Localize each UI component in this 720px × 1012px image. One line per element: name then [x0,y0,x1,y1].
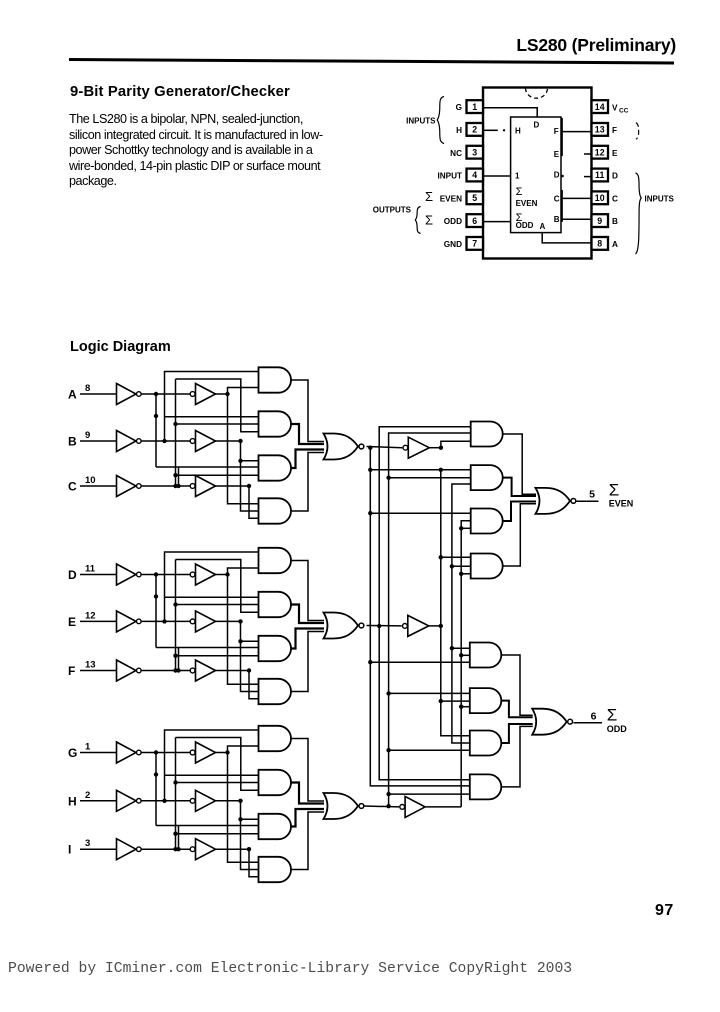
wire buffer GHI out [425,806,461,808]
svg-text:2: 2 [472,125,477,135]
svg-text:NC: NC [450,149,462,158]
svg-text:ODD: ODD [444,217,462,226]
wire to EVEN AND2 input1 [370,469,470,471]
AND gate EVEN2 [471,465,503,490]
AND gate EVEN1 [471,422,503,447]
wire AND1 out to NOR (DEF) [291,561,324,621]
svg-text:C: C [68,480,77,494]
svg-text:Σ: Σ [516,186,523,198]
svg-text:EVEN: EVEN [516,199,538,208]
pin label H [456,126,462,135]
vertical distribution wire (DEF) [165,560,259,672]
svg-text:H: H [68,794,77,808]
svg-text:9: 9 [85,430,90,441]
svg-text:8: 8 [85,383,90,394]
pin label GND [444,240,462,249]
svg-text:INPUTS: INPUTS [406,117,436,126]
wire AND1 out to NOR (ABC) [291,380,324,442]
wire to AND3 input (ABC) [156,467,259,488]
wire AND3 out to NOR (ABC) [291,450,324,469]
svg-text:F: F [554,127,559,136]
wire pin4 INPUT to inner box [484,175,511,177]
wire pin1 G to inner box [484,108,537,117]
svg-text:A: A [68,388,77,402]
vertical net V1 (parity ABC) [368,448,470,786]
AND gate DEF4 [259,679,292,704]
pin 7 [467,237,484,250]
AND gate GHI3 [259,814,292,839]
wire AND3 out to NOR (GHI) [291,809,324,827]
wire EVEN AND4 out to NOR [503,504,536,566]
wire A double-inverted to AND1/AND4 (ABC) [216,388,259,504]
inverter D first stage [117,564,142,585]
wire AND4 out to NOR (ABC) [291,453,324,512]
wire H double-inverted to AND4 (GHI) [216,799,259,870]
svg-text:7: 7 [472,239,477,249]
wire to ODD AND3 input3 [389,749,469,751]
inverter A second stage [190,384,215,405]
AND gate ABC4 [259,498,292,523]
NOR gate ODD output [532,709,572,735]
output 5 sigma EVEN [576,481,634,509]
output 6 sigma ODD [574,706,628,735]
inverter E first stage [117,611,142,632]
svg-text:B: B [554,215,560,224]
wire AND4 out to NOR (GHI) [291,812,324,870]
wire AND2 out to NOR (GHI) [291,783,324,804]
svg-text:Σ: Σ [609,481,620,500]
AND gate EVEN4 [471,554,503,579]
pin 14 [592,100,609,113]
wire buffer ABC out [429,441,470,450]
input F (pin 13) [68,660,116,679]
wire ODD AND2 out to NOR [501,701,532,718]
INPUTS label (left, pins G,H) [406,97,444,144]
svg-text:9: 9 [597,216,602,226]
svg-text:6: 6 [591,711,597,723]
pin label sigma EVEN [425,189,462,204]
wire to AND1 input (GHI) [165,730,259,801]
pin label D [612,172,618,181]
svg-text:D: D [554,171,560,180]
wire EVEN AND2 out to NOR [503,478,536,496]
wire AND2 out to NOR (DEF) [291,605,324,624]
wire H inverted node [142,799,191,803]
pin label F [612,126,617,135]
INPUTS label (right, pins 8-11,13) [636,123,675,254]
wire ODD AND4 out to NOR [501,726,532,787]
wire ODD AND1 out to NOR [501,655,532,715]
svg-text:EVEN: EVEN [609,499,634,509]
svg-text:C: C [612,194,618,203]
node parity GHI [365,804,400,808]
svg-text:1: 1 [85,742,91,753]
svg-text:5: 5 [589,489,595,501]
svg-text:ODD: ODD [516,221,534,230]
inverter F first stage [117,660,142,681]
wire to ODD AND2 input1 [389,692,471,694]
wire to ODD AND1 input2 [461,654,470,656]
vertical net V4 (parity DEF inverted) [439,468,469,736]
wire B double-inverted to AND4 (ABC) [216,439,259,511]
svg-text:Σ: Σ [607,706,618,725]
inverter A first stage [117,384,142,405]
inverter I first stage [117,839,142,860]
wire I double-inverted to AND4 (GHI) [216,847,259,877]
svg-text:E: E [68,615,76,629]
vertical net V2 (parity DEF) [379,427,471,780]
wire pin8 A to inner box [542,233,591,243]
svg-text:Σ: Σ [425,213,433,228]
svg-text:1: 1 [515,171,520,180]
buffer/inverter ABC' [403,437,429,458]
pin 8 [592,237,609,250]
pin 10 [592,191,609,204]
pin 11 [592,169,609,182]
inverter H first stage [117,790,142,811]
wire AND4 out to NOR (DEF) [291,632,324,692]
wire EVEN AND1 out to NOR [503,434,536,494]
input D (pin 11) [68,564,116,583]
svg-text:B: B [68,435,77,449]
DIP package U1 body [483,88,592,259]
wire to ODD AND2 input2 [441,700,471,702]
wire B inverted node [142,439,191,443]
vertical net V6 (parity GHI inverted) [459,521,471,807]
inverter F second stage [190,660,215,681]
AND gate ODD1 [470,643,501,668]
input B (pin 9) [68,430,116,449]
svg-text:CC: CC [619,108,629,115]
vertical distribution wire (GHI) [165,738,259,851]
svg-text:EVEN: EVEN [440,194,462,203]
wire D double-inverted to AND1/AND4 (DEF) [216,568,259,684]
inverter B second stage [190,431,215,452]
vertical net V3 (parity GHI) [386,433,470,806]
svg-text:INPUTS: INPUTS [645,195,675,204]
wire to ODD AND1 input3 [370,661,470,663]
wire buffer DEF out [429,624,443,628]
input H (pin 2) [68,790,116,809]
wire to EVEN AND2 input2 [389,477,471,479]
pin 2 [467,123,484,136]
svg-text:2: 2 [85,790,90,801]
AND gate EVEN3 [471,509,503,534]
inverter I second stage [190,839,215,860]
wire D inverted node [142,572,191,647]
svg-text:E: E [554,150,560,159]
wire to AND3 input (DEF) [156,648,259,673]
svg-text:F: F [612,126,617,135]
AND gate DEF3 [259,636,292,661]
svg-text:OUTPUTS: OUTPUTS [373,206,412,215]
svg-text:6: 6 [472,216,477,226]
wire E inverted node [142,619,191,623]
inverter C first stage [117,476,142,497]
pin label A [612,240,618,249]
pin 12 [592,146,609,159]
AND gate ODD3 [470,731,501,756]
svg-text:INPUT: INPUT [437,172,462,181]
svg-text:H: H [515,127,521,136]
wire to EVEN AND4 input2 [452,565,471,567]
inverter G first stage [117,742,142,763]
wire I inverted node [142,847,191,851]
vertical distribution wire (ABC) [165,379,259,487]
vertical net V5 [450,484,471,743]
svg-text:G: G [68,746,77,760]
wire to ODD AND2 input3 [461,706,471,708]
wire AND3 out to NOR (DEF) [291,629,324,649]
svg-text:3: 3 [472,147,477,157]
svg-text:1: 1 [472,102,477,112]
svg-text:Σ: Σ [425,189,433,204]
svg-text:D: D [534,121,540,130]
svg-text:12: 12 [595,147,605,157]
pin label G [456,103,462,112]
wire to ODD AND4 input3 [389,793,469,795]
pin 4 [467,169,484,182]
input E (pin 12) [68,610,116,629]
OUTPUTS label (left, pins 5,6) [373,206,421,234]
AND gate ODD2 [470,688,501,713]
svg-text:11: 11 [595,170,604,180]
wire pin2 H (broken in scan) [484,129,505,131]
wire pin11 D stub [561,175,591,178]
input I (pin 3) [68,838,116,857]
svg-text:B: B [612,217,618,226]
inverter E second stage [190,611,215,632]
svg-text:I: I [68,843,71,857]
svg-text:11: 11 [85,564,96,575]
AND gate ABC2 [259,411,292,436]
svg-text:V: V [612,104,618,113]
svg-text:5: 5 [472,193,477,203]
buffer/inverter DEF' [403,615,429,636]
input C (pin 10) [68,475,116,494]
pin 1 [467,100,484,113]
svg-text:A: A [612,240,618,249]
svg-text:ODD: ODD [607,724,628,734]
svg-text:GND: GND [444,240,462,249]
pin label E [612,149,618,158]
inverter H second stage [190,790,215,811]
AND gate ABC3 [259,455,292,480]
pin label B [612,217,618,226]
svg-text:8: 8 [597,239,602,249]
svg-text:D: D [68,568,77,582]
wire C double-inverted to AND4 (ABC) [216,484,259,518]
wire to EVEN AND4 input1 [441,556,471,558]
svg-text:14: 14 [595,102,605,112]
AND gate DEF2 [259,592,292,617]
pin label sigma ODD [425,213,462,228]
input A (pin 8) [68,383,116,402]
pin label INPUT [437,172,462,181]
AND gate GHI2 [259,770,292,795]
pin 9 [592,214,609,227]
svg-text:C: C [554,194,560,203]
wire ODD AND3 out to NOR [501,724,532,743]
wire G double-inverted to AND1/AND4 (GHI) [216,746,259,862]
wire pin9 B [562,218,591,220]
wire AND1 out to NOR (GHI) [291,739,324,802]
input G (pin 1) [68,742,116,761]
svg-text:4: 4 [472,170,477,180]
inverter C second stage [190,476,215,497]
svg-text:D: D [612,172,618,181]
AND gate GHI4 [259,857,292,882]
wire A inverted node [142,392,191,467]
wire AND2 out to NOR (ABC) [291,424,324,444]
pin 13 [592,123,609,136]
pin label C [612,194,618,203]
svg-text:3: 3 [85,838,90,849]
wire E double-inverted to AND4 (DEF) [216,619,259,691]
U1 inner function box [511,117,561,233]
NOR gate EVEN output [536,488,576,514]
AND gate DEF1 [259,548,292,573]
AND gate GHI1 [259,726,292,751]
wire pin10 C [562,190,591,222]
svg-text:F: F [68,664,75,678]
wire C inverted node [142,484,191,488]
pin label NC [450,149,462,158]
wire F inverted node [142,668,191,672]
wire EVEN AND3 out to NOR [503,502,536,522]
wire to AND1 input (ABC) [165,372,259,442]
node parity DEF [367,624,402,628]
inverter D second stage [190,564,215,585]
NOR gate DEF [324,613,364,639]
wire pin6 ODD to inner box [484,221,511,223]
svg-text:10: 10 [595,193,605,203]
wire to ODD AND1 input1 [452,647,470,649]
svg-text:E: E [612,149,618,158]
wire G inverted node [142,750,191,825]
wire pin12 E stub [584,153,592,155]
NOR gate ABC [324,434,364,460]
wire F double-inverted to AND4 (DEF) [216,668,259,698]
svg-text:10: 10 [85,475,96,486]
wire to AND1 input (DEF) [165,552,259,621]
wire to EVEN AND4 input3 [461,573,471,575]
pin 5 [467,191,484,204]
wire to EVEN AND3 input1 [370,512,470,514]
AND gate ODD4 [470,774,501,799]
buffer/inverter GHI' [400,796,425,817]
wire to AND3 input (GHI) [156,826,259,852]
svg-text:12: 12 [85,610,96,621]
inverter B first stage [117,431,142,452]
pin label Vcc [612,104,629,115]
pin 6 [467,214,484,227]
wire pin13 F [561,118,592,156]
svg-text:13: 13 [85,660,96,671]
wire to EVEN AND3 input3 [461,527,471,529]
inverter G second stage [190,742,215,763]
AND gate ABC1 [259,367,292,392]
svg-text:G: G [456,103,462,112]
stub EVEN AND3 input3 [459,526,463,530]
pin 3 [467,146,484,159]
NOR gate GHI [324,793,364,819]
svg-text:A: A [540,222,546,231]
svg-text:H: H [456,126,462,135]
node parity ABC [367,446,403,450]
svg-text:13: 13 [595,125,605,135]
